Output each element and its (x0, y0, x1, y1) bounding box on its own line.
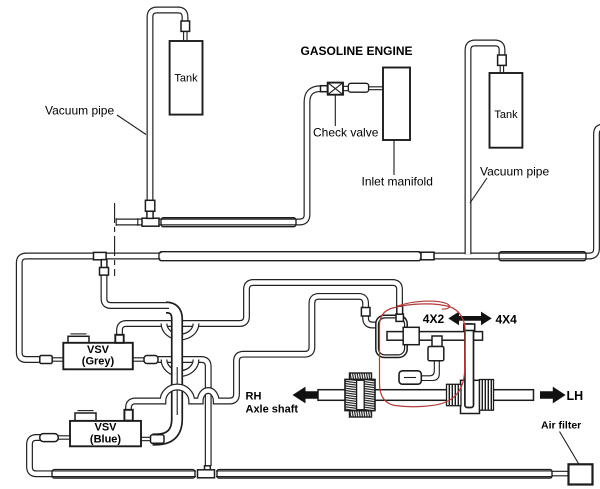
tank (left) (170, 41, 203, 115)
svg-text:(Grey): (Grey) (82, 356, 115, 368)
tank (right) (490, 73, 523, 148)
svg-text:RH: RH (246, 391, 262, 403)
node: fitting on inner serpentine leg (361, 308, 370, 317)
ribbed spline left (447, 384, 462, 405)
svg-text:VSV: VSV (94, 422, 117, 434)
viscous coupler (hatched) (345, 373, 375, 417)
air filter box (569, 464, 593, 484)
node: actuator top connector (396, 314, 403, 321)
hose on tank manifold pipe y=222 (161, 218, 296, 227)
svg-text:Check valve: Check valve (313, 126, 379, 140)
wire: fillet dip of y=359.5 junction (164, 360, 196, 374)
wire: VSV(Grey) right port pipe then down x=208 to bottom tee (158, 360, 208, 467)
svg-text:4X2: 4X2 (423, 312, 445, 326)
wire: VSV(Blue) left port pipe looping down to bottom pipe (30, 438, 197, 474)
label: Check valve with leader (334, 95, 336, 126)
wire: pipe from main tee x=104 over to riser pair (104, 271, 169, 306)
node: connector at top of left tank (181, 21, 190, 41)
vent box (rounded) (399, 371, 421, 384)
svg-text:Vacuum pipe: Vacuum pipe (480, 165, 549, 179)
node: VSV grey top connector (115, 335, 123, 343)
svg-text:VSV: VSV (87, 344, 110, 356)
svg-text:4X4: 4X4 (496, 312, 518, 326)
wire: bottom pipe right segment to air filter (216, 470, 552, 477)
hose on bottom pipe left segment (52, 470, 195, 479)
svg-text:Axle shaft: Axle shaft (246, 404, 299, 416)
hose on bottom pipe right segment (217, 470, 552, 479)
node: bottom tee fitting x=206 (198, 466, 215, 478)
node: VSV blue top connector (124, 410, 132, 421)
red highlight ellipse (hand drawn) (380, 301, 466, 407)
hose on main pipe left section (159, 252, 421, 261)
wire: VSV(Grey) top port pipe to actuator top (outer serpentine y=323.5 / y=282.5) (120, 283, 400, 337)
actuator rod (387, 332, 483, 341)
VSV (Grey) body (63, 334, 133, 369)
wire: tank manifold pipe y=222 from dash-dot boundary to gasoline engine riser (116, 89, 321, 222)
node: connector at top of right tank (498, 55, 507, 73)
wire: left tank riser pipe x=150 (150, 10, 185, 202)
wire: VSV(Blue) top port pipe hopping over risers to actuator left (inner serpentine) (129, 296, 379, 411)
axle shaft between coupler and ribs (374, 390, 447, 401)
svg-text:LH: LH (567, 389, 584, 403)
VSV (Blue) body (70, 411, 141, 447)
svg-text:Air filter: Air filter (541, 420, 581, 432)
axle shaft right segment (493, 390, 534, 401)
svg-text:GASOLINE ENGINE: GASOLINE ENGINE (301, 44, 413, 58)
RH axle shaft stub (318, 390, 346, 401)
node: VSV blue right connector pill + link (141, 435, 164, 444)
node: dash-dot boundary centerline (114, 203, 116, 276)
double arrow 4X2-4X4 (448, 312, 491, 326)
actuator flange (403, 327, 419, 344)
node: VSV grey right connector pill + link (133, 356, 158, 364)
svg-text:Vacuum pipe: Vacuum pipe (45, 104, 114, 118)
bolt body hex (428, 347, 444, 361)
wire: stub check valve to hose (343, 86, 349, 90)
svg-text:Tank: Tank (494, 109, 518, 121)
hose after check valve (348, 83, 368, 92)
node: VSV blue left connector pill + link (40, 434, 70, 442)
svg-text:(Blue): (Blue) (90, 433, 122, 445)
node: stub between riser and check valve (321, 86, 328, 92)
label: Inlet manifold with leader (393, 140, 395, 175)
actuator housing (double outline) (376, 315, 407, 357)
hose on main pipe right section (499, 252, 586, 261)
wire: link bottom pipe to air filter (552, 471, 569, 476)
wire: thin pipe hose to inlet manifold (369, 87, 383, 90)
svg-text:Tank: Tank (174, 73, 198, 85)
shift rail (vertical bar) (464, 324, 475, 408)
ribbed spline right (480, 380, 494, 411)
node: tee fitting at left tank riser x=150 on y=222 pipe (142, 200, 159, 226)
bolt / breather: head (432, 336, 442, 347)
wire: wide riser pair sweeping down to VSV(Blue) right connector (153, 308, 178, 440)
bolt stem + pipe to vent box (421, 361, 439, 381)
wire: fillet dip of y=323.5 junction (164, 324, 196, 338)
check valve (box with X) (328, 83, 343, 95)
wire: separation line between the two risers of the pair (176, 367, 178, 415)
LH arrow (540, 387, 566, 404)
hub block on shaft (461, 380, 480, 413)
node: VSV grey left connector pill + link (40, 356, 64, 364)
wire: main vacuum pipe from VSV(Grey) left around left edge along y=256 to top right (19, 127, 600, 360)
inlet manifold (383, 68, 410, 141)
RH arrow (293, 387, 319, 404)
node: squared end + division on y=222 pipe (116, 218, 138, 226)
node: junction fitting under main pipe tee x=104 (94, 252, 109, 275)
node: connector on main pipe x=421-434 (421, 252, 434, 260)
svg-text:Inlet manifold: Inlet manifold (362, 175, 433, 189)
wire: right tank riser pipe x=468 (468, 43, 502, 254)
